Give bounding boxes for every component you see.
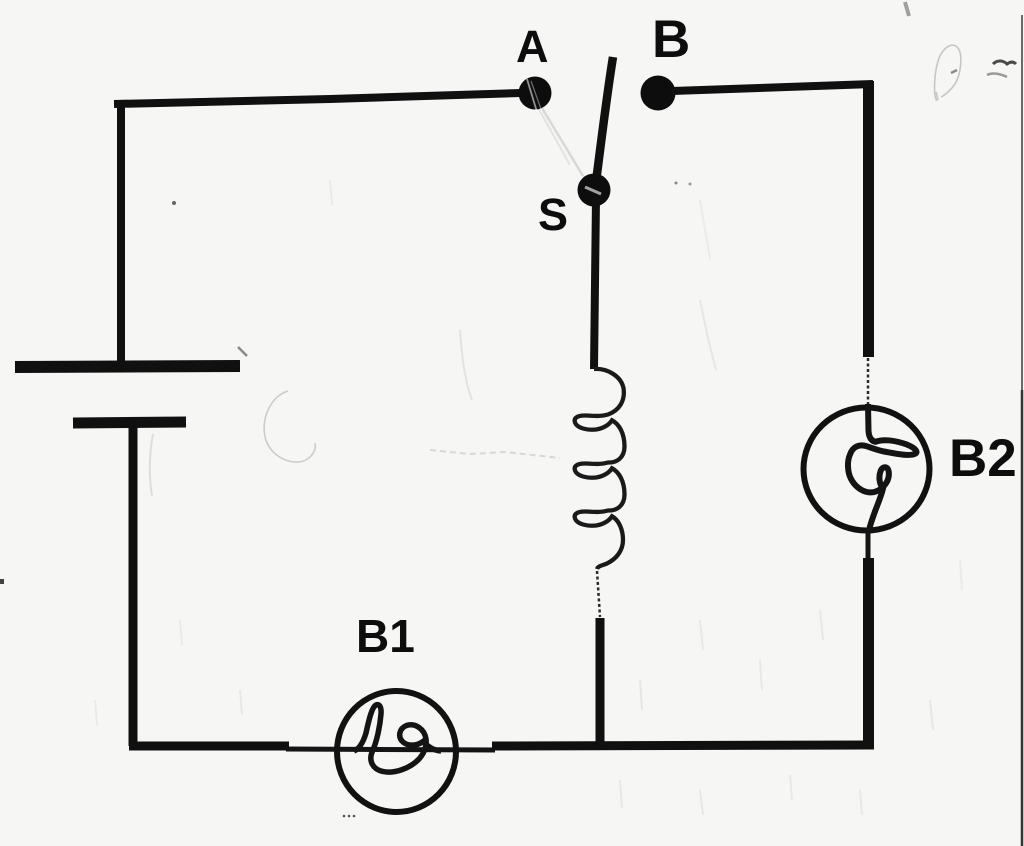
node A: switch contact dot: [519, 77, 552, 110]
switch S: pivot dot: [578, 174, 611, 207]
battery: short (-) plate: [73, 422, 186, 423]
wire: thin speckled lead above lamp B2: [867, 358, 870, 404]
wire: thin speckled lead below coil: [597, 571, 600, 617]
wire: thin horizontal through lamp B1: [286, 749, 495, 750]
wire: right vertical upper (corner down to lamp B2): [863, 81, 874, 357]
wire: top left horizontal (battery top to contact A): [114, 93, 521, 104]
lamp B2: filament squiggle: [848, 404, 917, 533]
svg-text:B1: B1: [356, 610, 415, 662]
svg-text:B2: B2: [949, 429, 1017, 488]
svg-text:B: B: [652, 10, 690, 69]
wire: lower-left vertical (battery - plate down to bottom wire): [129, 424, 138, 746]
wire: right vertical lower (lamp B2 to bottom-right corner): [863, 558, 874, 745]
lamp B1: filament squiggle: [354, 705, 441, 772]
wire: middle vertical down to bottom wire: [596, 618, 605, 748]
lamp B2: bulb circle: [804, 408, 930, 531]
wire: contact B to top-right corner: [672, 84, 873, 91]
battery: long (+) plate: [15, 366, 240, 367]
svg-text:A: A: [516, 21, 549, 72]
node B: switch contact dot: [641, 76, 676, 111]
wire: left vertical (top wire down to battery + plate): [117, 101, 125, 366]
wire: lamp B2 bottom lead: [866, 532, 871, 562]
inductor L: hand-drawn coil: [575, 369, 625, 569]
decorative scan artifacts (unlabeled, placed before first labelled element): [905, 2, 1022, 846]
lamp B1: bulb circle: [337, 691, 456, 812]
wire: switch pivot down to inductor: [594, 198, 596, 369]
wire: bottom horizontal left segment (to lamp B1): [129, 742, 289, 751]
wire: bottom horizontal right segment (lamp B1 to bottom-right corner): [492, 745, 874, 746]
svg-text:S: S: [538, 189, 568, 240]
switch S: lever arm (open, between A and B): [595, 57, 613, 189]
